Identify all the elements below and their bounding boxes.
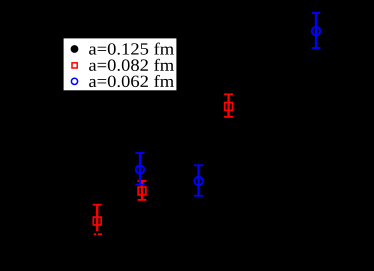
data point R2: red square a=0.082 fm <box>138 181 147 200</box>
data point R1: red square a=0.082 fm <box>224 94 233 117</box>
data point R3: red square a=0.082 fm (bottom cap clipped by black axis) <box>93 205 102 235</box>
black axis tick crossing B1 top cap <box>317 13 320 14</box>
legend text row 3: a=0.062 fm <box>89 75 174 87</box>
data point B2: blue circle a=0.062 fm <box>135 153 144 185</box>
legend symbol: red open square <box>72 63 77 68</box>
legend box <box>64 38 177 90</box>
legend symbol: black filled circle <box>71 45 79 53</box>
data point B1: blue circle a=0.062 fm <box>312 13 321 48</box>
data point B3: blue circle a=0.062 fm <box>194 165 203 195</box>
raised right tip of B1 top cap <box>319 11 321 14</box>
legend text row 2: a=0.082 fm <box>89 59 174 71</box>
legend symbol: blue open circle <box>71 78 77 84</box>
legend text row 1: a=0.125 fm <box>89 43 174 55</box>
